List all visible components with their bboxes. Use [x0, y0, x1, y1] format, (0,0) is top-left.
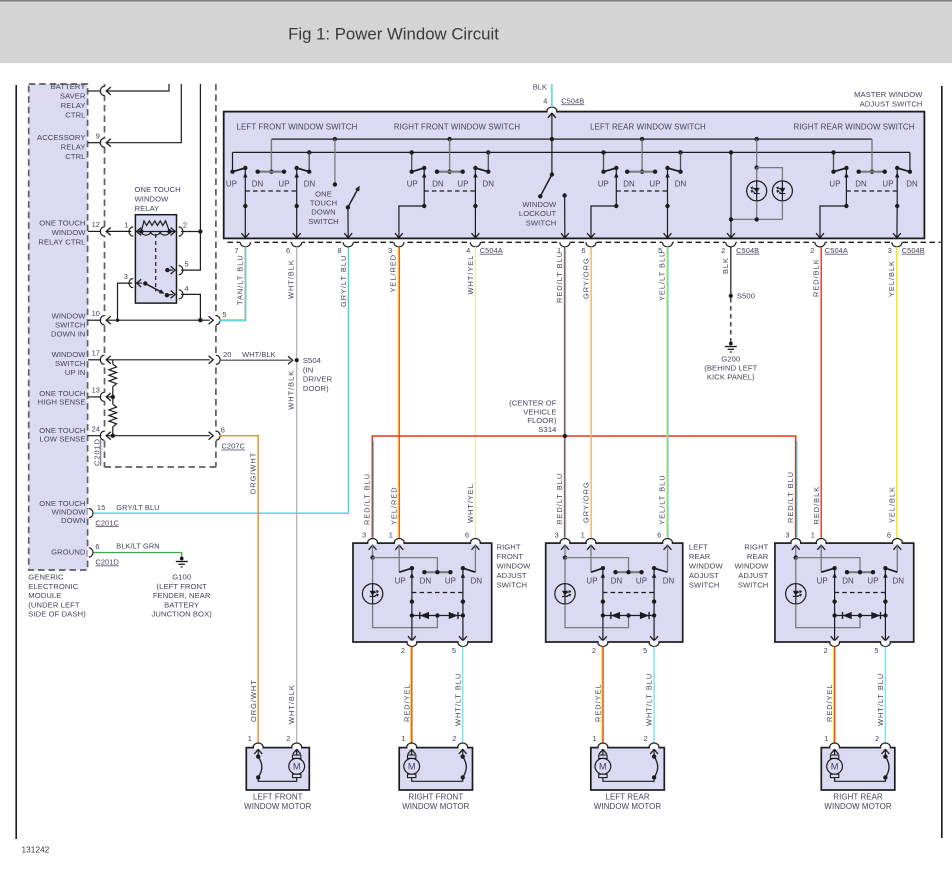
svg-text:WHT/BLK: WHT/BLK [287, 684, 296, 724]
master bottom connector bump [559, 241, 570, 244]
motor box [399, 748, 472, 790]
DN blade [885, 568, 897, 572]
DN/UP center bar [847, 571, 873, 573]
svg-text:UP: UP [278, 180, 289, 189]
svg-text:RIGHT FRONT WINDOW SWITCH: RIGHT FRONT WINDOW SWITCH [394, 123, 520, 132]
switch group UP blade [412, 168, 425, 172]
mechanical link dashed [603, 592, 654, 594]
title bar [0, 0, 952, 63]
svg-text:BLK: BLK [533, 83, 547, 92]
svg-text:YEL/LT BLU: YEL/LT BLU [657, 251, 666, 301]
svg-text:24: 24 [92, 425, 100, 434]
switch group moving contact 1 [244, 168, 246, 206]
svg-text:2: 2 [810, 246, 814, 255]
svg-text:2: 2 [286, 734, 290, 743]
moving contact to pin 5 [653, 568, 655, 641]
mechanical link dashed [835, 592, 886, 594]
svg-text:DN: DN [432, 180, 444, 189]
svg-text:RED/LT BLU: RED/LT BLU [786, 471, 795, 523]
svg-text:WINDOW: WINDOW [135, 194, 170, 203]
LED D2 [772, 181, 792, 201]
switch group moving contact 2 [296, 168, 298, 206]
master bottom connector bump [291, 241, 302, 244]
svg-text:UP: UP [829, 180, 840, 189]
svg-text:WHT/YEL: WHT/YEL [466, 255, 475, 295]
pin 1 UP contact [587, 545, 595, 550]
motor box [246, 748, 309, 790]
relay coil (pins 1-2) [137, 231, 175, 233]
svg-text:BLK/LT GRN: BLK/LT GRN [116, 542, 159, 551]
svg-text:LOCKOUT: LOCKOUT [519, 209, 557, 218]
motor box [821, 748, 895, 790]
svg-text:ADJUST: ADJUST [738, 571, 768, 580]
svg-text:GRY/LT BLU: GRY/LT BLU [116, 503, 159, 512]
wire RED/YEL right rear adjust pin 2 to motor [832, 647, 834, 743]
wire RED/YEL left rear adjust pin 2 to motor [601, 647, 603, 743]
adjust box top pin bumps [792, 542, 800, 545]
motor pin bumps [830, 746, 838, 749]
svg-text:1: 1 [592, 734, 596, 743]
svg-text:ONE TOUCH: ONE TOUCH [135, 185, 181, 194]
motor M [602, 748, 604, 756]
svg-text:6: 6 [95, 542, 99, 551]
svg-text:HIGH SENSE: HIGH SENSE [38, 398, 86, 407]
svg-text:CTRL: CTRL [65, 111, 85, 120]
splice S500 [729, 294, 733, 298]
svg-text:3: 3 [124, 272, 128, 281]
svg-text:WINDOW: WINDOW [52, 350, 87, 359]
svg-text:6: 6 [465, 531, 469, 540]
svg-text:WHT/LT BLU: WHT/LT BLU [645, 673, 654, 726]
svg-text:WINDOW: WINDOW [497, 562, 532, 571]
switch group DN blade [668, 168, 681, 172]
switch group DN blade [897, 168, 910, 172]
svg-text:DN: DN [252, 180, 264, 189]
svg-text:GRY/ORG: GRY/ORG [581, 481, 590, 523]
svg-text:UP: UP [882, 180, 893, 189]
adjust box bottom pin bumps [599, 641, 607, 644]
svg-text:6: 6 [657, 531, 661, 540]
svg-text:DN: DN [892, 577, 904, 586]
switch group UP blade [604, 168, 617, 172]
svg-text:4: 4 [185, 284, 189, 293]
switch group mechanical link [424, 190, 475, 192]
svg-text:RELAY CTRL: RELAY CTRL [38, 238, 85, 247]
wire RED/LT BLU master pin 1 through S314 to left rear adjust pin 3 [563, 247, 565, 538]
right border rule [941, 86, 943, 838]
svg-text:BATTERY: BATTERY [164, 600, 199, 609]
motor pin bumps [254, 746, 262, 749]
motor bottom return wire [835, 777, 886, 781]
wire YEL/LT BLU master pin 5 to left rear adjust pin 6 [666, 247, 668, 538]
svg-text:13: 13 [92, 386, 100, 395]
module pin 13 connector [88, 396, 101, 398]
splice S504 [220, 359, 291, 361]
pin 6 DN contact [893, 545, 901, 550]
left rear moving contact exits to pins 6,5 [591, 206, 616, 238]
svg-text:(BEHIND LEFT: (BEHIND LEFT [704, 364, 757, 373]
svg-text:8: 8 [337, 246, 341, 255]
svg-text:5: 5 [222, 310, 226, 319]
svg-text:WINDOW: WINDOW [734, 562, 769, 571]
module pin 9 connector [88, 142, 101, 144]
svg-text:3: 3 [888, 246, 892, 255]
svg-text:YEL/BLK: YEL/BLK [887, 486, 896, 523]
connector boundary dashed box [104, 84, 106, 467]
wire relay pin 4 to window-switch-down line [181, 294, 200, 320]
svg-text:ADJUST: ADJUST [497, 571, 527, 580]
switch group DN blade [297, 168, 310, 172]
svg-text:DOOR): DOOR) [303, 384, 329, 393]
svg-text:7: 7 [234, 246, 238, 255]
svg-text:1: 1 [581, 531, 585, 540]
svg-text:G200: G200 [721, 354, 740, 363]
svg-text:S314: S314 [538, 425, 556, 434]
switch group moving contact 2 [667, 168, 669, 206]
svg-text:UP: UP [457, 180, 468, 189]
svg-text:RIGHT: RIGHT [744, 543, 768, 552]
svg-text:4: 4 [543, 96, 547, 105]
master bottom connector bump [343, 241, 354, 244]
svg-text:LEFT FRONT: LEFT FRONT [253, 793, 303, 802]
module pin 12 connector [88, 230, 101, 232]
svg-text:FENDER, NEAR: FENDER, NEAR [153, 591, 211, 600]
wire GRY/LT BLU one-touch-window-down (module pin 15 to master pin 8) [93, 247, 348, 513]
svg-text:5: 5 [874, 646, 878, 655]
relay pin 2 wire to feed rail [177, 227, 180, 235]
switch group center feed [871, 139, 873, 172]
svg-text:RED/BLK: RED/BLK [812, 258, 821, 297]
svg-text:SWITCH: SWITCH [308, 217, 339, 226]
svg-text:20: 20 [223, 350, 231, 359]
relay armature dashed link [155, 234, 157, 291]
svg-text:5: 5 [643, 646, 647, 655]
relay pin 5 [177, 266, 180, 274]
module pin 17 connector [88, 359, 101, 361]
pin 6 DN contact [664, 545, 672, 550]
motor bottom return wire [258, 777, 297, 781]
svg-text:UP: UP [649, 180, 660, 189]
svg-text:5: 5 [185, 260, 189, 269]
LED D1 [747, 181, 767, 201]
svg-text:WINDOW MOTOR: WINDOW MOTOR [244, 802, 311, 811]
switch group mechanical link [616, 190, 667, 192]
svg-text:2: 2 [824, 646, 828, 655]
module pin 15 one touch window down connector C201C [88, 509, 91, 517]
wire RED/YEL right front adjust pin 2 to motor [410, 647, 412, 743]
switch group DN contact [486, 150, 490, 154]
svg-text:GRY/LT BLU: GRY/LT BLU [339, 255, 348, 307]
pin 1 UP contact [817, 545, 825, 550]
svg-text:C201D: C201D [95, 558, 119, 567]
svg-text:BATTERY: BATTERY [50, 82, 85, 91]
switch group moving contact 1 [423, 168, 425, 206]
svg-text:LOW SENSE: LOW SENSE [39, 435, 85, 444]
svg-text:VEHICLE: VEHICLE [523, 407, 556, 416]
svg-text:2: 2 [875, 734, 879, 743]
module pin 10 connector [88, 319, 101, 321]
resistor divider R2 [112, 397, 114, 404]
wire ORG/WHT module pin 24 to left front motor pin 1 [220, 436, 259, 743]
master bottom connector dashed line [228, 241, 941, 243]
pin 1 UP contact [395, 545, 403, 550]
switch group moving contact 2 [896, 168, 898, 206]
svg-text:2: 2 [721, 246, 725, 255]
motor limit switch arc [653, 748, 655, 757]
svg-text:1: 1 [824, 734, 828, 743]
switch group UP blade [834, 168, 847, 172]
wire BLK S500 to ground G200 (dashed) [730, 298, 732, 343]
window lockout switch [548, 113, 556, 118]
switch group mechanical link [846, 190, 897, 192]
one touch window relay box [135, 215, 176, 303]
svg-text:6: 6 [581, 246, 585, 255]
svg-text:WHT/LT BLU: WHT/LT BLU [876, 673, 885, 726]
svg-text:ONE: ONE [315, 190, 332, 199]
svg-text:C207C: C207C [222, 442, 246, 451]
svg-text:WINDOW MOTOR: WINDOW MOTOR [594, 802, 661, 811]
svg-text:LEFT REAR WINDOW SWITCH: LEFT REAR WINDOW SWITCH [590, 123, 706, 132]
svg-text:UP: UP [226, 180, 237, 189]
svg-text:YEL/RED: YEL/RED [389, 254, 398, 293]
svg-text:UP: UP [395, 577, 406, 586]
switch group UP contact [411, 152, 413, 171]
svg-text:DN: DN [471, 577, 483, 586]
relay pin 1 [132, 227, 135, 235]
master bottom connector bump [393, 241, 404, 244]
svg-text:M: M [408, 762, 416, 772]
adjust box top pin bumps [368, 542, 376, 545]
svg-text:2: 2 [644, 734, 648, 743]
switch group DN/UP contact bar [859, 171, 885, 173]
module pin 24 connector [88, 435, 101, 437]
svg-text:3: 3 [555, 531, 559, 540]
adjust box top pin bumps [561, 542, 569, 545]
relay pin 4 [177, 290, 180, 298]
svg-text:WHT/YEL: WHT/YEL [466, 483, 475, 523]
svg-text:KICK PANEL): KICK PANEL) [707, 373, 755, 382]
switch group UP contact [232, 152, 234, 171]
svg-text:SWITCH: SWITCH [689, 581, 720, 590]
left front moving contact exits to pins 7,6 [244, 206, 246, 238]
svg-text:DOWN IN: DOWN IN [51, 330, 85, 339]
svg-text:MASTER WINDOW: MASTER WINDOW [854, 90, 923, 99]
svg-text:1: 1 [389, 531, 393, 540]
svg-text:SWITCH: SWITCH [55, 321, 86, 330]
svg-text:RELAY: RELAY [61, 143, 86, 152]
pin 3 feed + panel LED [792, 545, 800, 550]
motor M [834, 748, 836, 756]
svg-text:TAN/LT BLU: TAN/LT BLU [236, 254, 245, 305]
svg-text:RIGHT: RIGHT [497, 543, 521, 552]
svg-text:GRY/ORG: GRY/ORG [582, 257, 591, 299]
svg-text:S504: S504 [303, 356, 321, 365]
switch group UP blade [233, 168, 246, 172]
svg-text:UP: UP [445, 577, 456, 586]
svg-text:DN: DN [623, 180, 635, 189]
master bottom connector bump [240, 241, 251, 244]
svg-text:RELAY: RELAY [61, 101, 86, 110]
svg-text:CTRL: CTRL [65, 152, 85, 161]
wire WHT/LT BLU right rear adjust pin 5 to motor [884, 647, 886, 743]
svg-text:LEFT FRONT WINDOW SWITCH: LEFT FRONT WINDOW SWITCH [237, 123, 358, 132]
motor limit switch arc [462, 748, 464, 757]
svg-text:DN: DN [675, 180, 687, 189]
module pin connector [88, 90, 101, 92]
svg-text:DN: DN [304, 180, 316, 189]
wire RED/BLK master pin 2 C504A to right rear adjust pin 1 [820, 247, 822, 538]
switch group UP contact [833, 152, 835, 171]
wire relay pin 3 to window-switch-down line [118, 283, 133, 320]
svg-text:RED/LT BLU: RED/LT BLU [555, 473, 564, 525]
UP blade [399, 568, 412, 572]
svg-text:M: M [831, 762, 839, 772]
svg-text:RED/YEL: RED/YEL [825, 683, 834, 722]
svg-text:DN: DN [420, 577, 432, 586]
svg-text:RED/YEL: RED/YEL [593, 683, 602, 722]
switch group center feed [270, 139, 272, 172]
mechanical link dashed [412, 592, 463, 594]
svg-text:5: 5 [452, 646, 456, 655]
svg-text:WINDOW: WINDOW [689, 562, 724, 571]
svg-text:WHT/BLK: WHT/BLK [242, 350, 276, 359]
svg-text:C201D: C201D [93, 438, 102, 466]
svg-text:ADJUST: ADJUST [689, 571, 719, 580]
svg-text:UP: UP [636, 577, 647, 586]
svg-text:LEFT: LEFT [689, 543, 708, 552]
motor bottom return wire [412, 777, 463, 781]
svg-text:G100: G100 [172, 573, 191, 582]
svg-text:1: 1 [124, 220, 128, 229]
svg-text:C504B: C504B [561, 96, 584, 105]
svg-text:(IN: (IN [303, 365, 313, 374]
svg-text:RED/LT BLU: RED/LT BLU [555, 251, 564, 303]
svg-text:C504B: C504B [902, 246, 925, 255]
svg-text:DN: DN [663, 577, 675, 586]
wire WHT/BLK master pin 6 to left front motor pin 2 [296, 247, 298, 743]
svg-text:1: 1 [811, 531, 815, 540]
svg-text:C201C: C201C [95, 518, 119, 527]
svg-text:REAR: REAR [747, 552, 769, 561]
DN/UP center bar [616, 571, 642, 573]
svg-text:3: 3 [785, 531, 789, 540]
master bus wire 2 (crossover) [233, 151, 910, 153]
wire WHT/LT BLU left rear adjust pin 5 to motor [653, 647, 655, 743]
svg-text:SWITCH: SWITCH [497, 581, 528, 590]
moving contact to pin 5 [462, 568, 464, 641]
svg-text:WINDOW: WINDOW [52, 312, 87, 321]
svg-text:12: 12 [92, 220, 100, 229]
svg-text:WHT/LT BLU: WHT/LT BLU [453, 673, 462, 726]
wire BLK master pin 2 to splice S500 [730, 247, 732, 296]
master bottom connector bump [725, 241, 736, 244]
svg-text:WINDOW MOTOR: WINDOW MOTOR [402, 802, 469, 811]
adjust switch box [546, 543, 683, 642]
switch group UP contact [603, 152, 605, 171]
UP blade [821, 568, 834, 572]
svg-text:6: 6 [221, 426, 225, 435]
svg-text:ORG/WHT: ORG/WHT [249, 679, 258, 722]
svg-text:3: 3 [388, 246, 392, 255]
svg-text:1: 1 [248, 734, 252, 743]
master bus wire 1 (feed) [271, 138, 872, 140]
svg-text:WHT/BLK: WHT/BLK [287, 370, 296, 410]
svg-text:UP IN: UP IN [65, 368, 86, 377]
svg-text:4: 4 [466, 246, 470, 255]
wire BLK (drawn lt-blue) above master box [551, 84, 553, 107]
moving contact to pin 2 [411, 568, 413, 641]
switch group DN contact [678, 150, 682, 154]
pin 3 feed + panel LED [561, 545, 569, 550]
switch group DN/UP contact bar [437, 171, 463, 173]
master bottom connector bump [470, 241, 481, 244]
svg-text:LEFT REAR: LEFT REAR [605, 793, 649, 802]
svg-text:SAVER: SAVER [60, 92, 86, 101]
switch group DN contact [307, 150, 311, 154]
motor pin bumps [599, 746, 607, 749]
master bottom connector bump [814, 241, 825, 244]
one-touch diodes [835, 615, 886, 617]
svg-text:SWITCH: SWITCH [738, 581, 769, 590]
svg-text:M: M [293, 762, 301, 772]
svg-text:S500: S500 [737, 292, 755, 301]
svg-text:131242: 131242 [22, 846, 50, 855]
svg-text:RIGHT FRONT: RIGHT FRONT [408, 793, 463, 802]
adjust box bottom pin bumps [830, 641, 838, 644]
svg-text:YEL/RED: YEL/RED [390, 486, 399, 525]
ground G200 [729, 342, 733, 346]
adjust switch box [353, 543, 492, 642]
svg-text:(UNDER LEFT: (UNDER LEFT [28, 600, 80, 609]
svg-text:DN: DN [482, 180, 494, 189]
svg-text:RED/BLK: RED/BLK [812, 486, 821, 525]
switch group DN blade [475, 168, 488, 172]
DN blade [463, 568, 476, 572]
svg-text:DN: DN [611, 577, 623, 586]
svg-text:UP: UP [817, 577, 828, 586]
ground G100 [180, 557, 184, 561]
svg-text:10: 10 [92, 309, 100, 318]
svg-text:ADJUST SWITCH: ADJUST SWITCH [860, 100, 923, 109]
svg-text:17: 17 [92, 349, 100, 358]
DN blade [654, 568, 667, 572]
svg-text:RELAY: RELAY [135, 204, 160, 213]
pin 3 feed + panel LED [369, 545, 377, 550]
svg-text:UP: UP [867, 577, 878, 586]
resistor divider R1 [112, 360, 114, 364]
switch group DN contact [909, 152, 911, 171]
svg-text:UP: UP [598, 180, 609, 189]
svg-text:YEL/LT BLU: YEL/LT BLU [657, 474, 666, 524]
svg-text:RED/LT BLU: RED/LT BLU [363, 473, 372, 525]
svg-text:2: 2 [401, 646, 405, 655]
switch group mechanical link [245, 190, 296, 192]
svg-text:M: M [599, 762, 607, 772]
adjust switch box [775, 543, 914, 642]
splice S314 and distribution wire [372, 436, 795, 538]
one-touch diodes [603, 615, 654, 617]
master switch illumination LEDs [755, 137, 759, 141]
svg-text:(LEFT FRONT: (LEFT FRONT [157, 582, 208, 591]
svg-text:GROUND: GROUND [51, 548, 86, 557]
switch group DN/UP contact bar [627, 171, 655, 173]
svg-text:2: 2 [452, 734, 456, 743]
svg-text:ACCESSORY: ACCESSORY [37, 133, 85, 142]
svg-text:9: 9 [96, 132, 100, 141]
svg-text:UP: UP [586, 577, 597, 586]
svg-text:GENERIC: GENERIC [28, 573, 64, 582]
wire YEL/BLK master pin 3 C504B to right rear adjust pin 6 [896, 247, 898, 538]
